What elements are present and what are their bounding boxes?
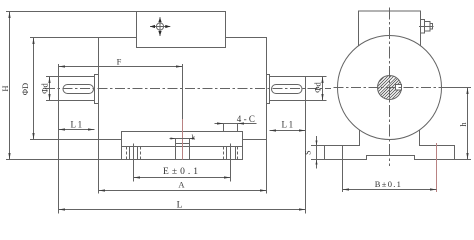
dim B extension right (red)	[436, 143, 438, 192]
cable gland	[421, 20, 425, 34]
dim phid-right extensions	[306, 76, 327, 78]
dim H extension top	[6, 11, 137, 13]
dim A extensions	[98, 140, 100, 194]
H arrows	[8, 12, 10, 19]
left shaft	[59, 77, 95, 101]
motor body (side view)	[99, 38, 267, 140]
dim H line	[9, 12, 11, 160]
dim S line	[316, 136, 318, 169]
dim E extensions	[133, 144, 135, 182]
dim L1 right line	[270, 130, 306, 132]
left foot slot solid lines	[129, 147, 131, 160]
k arrows	[171, 138, 176, 140]
phid-right arrows	[321, 77, 323, 84]
dim phid-left line	[49, 77, 51, 101]
dim phid-right line	[322, 77, 324, 101]
svg-text:A: A	[178, 179, 185, 189]
dim phid-left extensions	[46, 76, 59, 78]
L arrows	[59, 208, 66, 210]
phid-left arrows	[48, 77, 50, 84]
svg-text:B±0.1: B±0.1	[375, 179, 402, 189]
red vertical centre line (side view)	[182, 119, 184, 160]
dim h line	[467, 88, 469, 160]
dim phiD line	[33, 38, 35, 140]
stator circle	[338, 36, 442, 140]
h arrows	[466, 88, 468, 95]
dim 4-C leader line	[215, 123, 257, 125]
left shaft boss	[95, 75, 99, 104]
dim L line	[59, 209, 306, 211]
right keyway	[272, 85, 303, 94]
dim B extension left	[342, 146, 344, 193]
dim k line	[170, 138, 192, 140]
svg-text:F: F	[117, 57, 122, 67]
shaft circle	[378, 76, 402, 100]
L1 right arrows	[270, 129, 277, 131]
svg-text:Φd: Φd	[40, 83, 50, 94]
dim L extensions	[58, 101, 60, 214]
B arrows	[343, 188, 350, 190]
end view vertical centre line	[389, 8, 391, 167]
svg-text:k: k	[191, 132, 195, 141]
terminal box (side view)	[137, 12, 226, 48]
right shaft boss	[267, 75, 270, 104]
right foot slot solid lines	[226, 147, 228, 160]
shaft keyway notch (end view)	[396, 85, 402, 91]
dim 4-C extensions	[223, 124, 225, 132]
dim A line	[99, 190, 267, 192]
dim F line	[59, 66, 183, 68]
dim E line	[134, 177, 231, 179]
svg-text:4-C: 4-C	[237, 114, 257, 124]
svg-text:Φd: Φd	[312, 82, 322, 93]
4-C arrows	[217, 122, 224, 124]
terminal box (end view)	[359, 11, 421, 47]
shaft circle hatching	[366, 60, 413, 108]
dim F extension left	[58, 64, 60, 77]
end view horizontal centre line	[334, 87, 448, 89]
L1 left arrows	[59, 128, 66, 130]
svg-text:H: H	[0, 85, 10, 91]
right shaft	[270, 77, 306, 101]
right foot hole hidden lines	[223, 147, 225, 160]
dim h extension top	[444, 87, 472, 89]
main centre line (side view)	[45, 88, 331, 90]
dim L1 left line	[59, 129, 95, 131]
feet inner line	[122, 146, 243, 148]
F arrows	[59, 65, 66, 67]
base (end view)	[325, 130, 455, 160]
svg-text:h: h	[458, 122, 468, 127]
dim B line	[343, 189, 437, 191]
mounting feet block (side view)	[122, 132, 243, 160]
dim S extensions	[311, 145, 325, 147]
dim h extension bottom	[455, 159, 472, 161]
phiD arrows	[32, 38, 34, 45]
svg-text:L1: L1	[71, 119, 84, 129]
svg-text:S: S	[304, 150, 313, 154]
lifting point symbol	[150, 17, 170, 36]
svg-text:L1: L1	[282, 120, 295, 130]
centre notch in base	[176, 138, 190, 160]
left keyway	[63, 85, 94, 94]
E arrows	[134, 176, 141, 178]
svg-text:E±0.1: E±0.1	[163, 167, 201, 177]
A arrows	[99, 189, 106, 191]
svg-text:L: L	[177, 200, 183, 210]
dim phiD extension top	[30, 37, 99, 39]
S arrows	[316, 141, 318, 146]
dim H extension bottom	[6, 159, 122, 161]
svg-text:ΦD: ΦD	[20, 83, 30, 95]
dim F extension right / centre	[182, 64, 184, 119]
dim phiD extension bottom	[30, 139, 99, 141]
left foot hole hidden lines	[126, 147, 128, 160]
